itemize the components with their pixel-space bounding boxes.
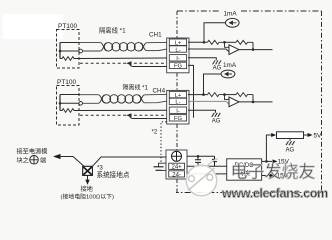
node dot on 24+ wire <box>197 165 199 167</box>
wire L- row CH1 <box>188 49 229 52</box>
arrow 5V <box>308 133 313 137</box>
op-amp CH4 <box>229 97 239 107</box>
node dot L+ / source CH4 <box>202 93 205 96</box>
RTD element bar CH4 <box>59 95 61 111</box>
down arrow to earth <box>87 175 89 181</box>
cable tube CH1 <box>79 42 167 51</box>
svg-text:系统接地点: 系统接地点 <box>97 170 130 179</box>
earth plate 2 <box>156 169 162 171</box>
watermark swoosh <box>207 159 218 167</box>
dotted line FG to earth <box>161 122 167 163</box>
module border bottom <box>176 192 322 194</box>
resistor in sensor CH1 <box>60 57 79 61</box>
wire CH1 middle to cable <box>60 50 79 52</box>
wire L+ row CH1 <box>188 41 208 43</box>
node dot output branch <box>265 160 268 163</box>
resistor R2 CH4 <box>236 93 253 97</box>
wire ground point to FG terminal <box>92 157 166 166</box>
resistor R1 CH4 <box>208 93 225 97</box>
wire to opamp inverting CH1 <box>225 42 230 47</box>
node dot output CH4 <box>252 101 255 104</box>
svg-text:L-: L- <box>175 100 180 106</box>
circled plus in text <box>30 156 39 165</box>
node dot L+ / source CH1 <box>203 41 206 44</box>
svg-text:*3: *3 <box>97 165 103 172</box>
AG ground CH1 <box>213 60 222 64</box>
sensor box PT100 #2 <box>57 86 80 126</box>
wire 24- to DC/DC <box>187 173 227 175</box>
drain wire CH1 to FG <box>130 64 168 67</box>
DC/DC output top wire <box>262 160 271 162</box>
terminal labels CH4 <box>174 93 183 122</box>
wire to R2 CH1 <box>225 41 237 43</box>
svg-text:1mA: 1mA <box>224 11 238 18</box>
resistor box R load <box>277 132 304 139</box>
svg-text:*2: *2 <box>152 129 158 136</box>
watermark bar <box>188 168 215 191</box>
watermark big circle <box>186 165 216 195</box>
svg-text:FG: FG <box>174 64 183 70</box>
resistor in sensor CH4 <box>60 109 79 113</box>
wire CH1 L+ sensor to cable <box>60 42 80 44</box>
current source U2 CH4 <box>221 70 235 78</box>
1mA label CH1 <box>222 8 240 16</box>
svg-text:24-: 24- <box>172 172 181 178</box>
node dot output CH1 <box>252 48 255 51</box>
sensor box PT100 #1 <box>57 30 80 69</box>
svg-text:24+: 24+ <box>172 165 183 171</box>
resistor R2 CH1 <box>236 40 253 44</box>
svg-text:接至电源模: 接至电源模 <box>17 148 48 156</box>
svg-text:FG: FG <box>174 116 183 122</box>
wire resistor to 5V <box>304 134 309 136</box>
module border left segments <box>176 11 178 193</box>
node dot mid CH4 <box>223 93 226 96</box>
node dot FG wire <box>197 155 200 158</box>
cable loops CH4 <box>102 95 140 103</box>
wire CH4 I- <box>79 109 167 111</box>
terminal labels CH1 <box>174 41 183 70</box>
module border right <box>321 11 323 193</box>
open terminal circle CH4 <box>79 102 83 106</box>
arrow -15V <box>270 174 275 178</box>
system ground point box X <box>83 166 93 175</box>
svg-text:接地: 接地 <box>81 185 93 193</box>
shield arrow CH1 <box>126 61 132 65</box>
arrow 15V <box>271 160 272 162</box>
wire source to L+ CH4 <box>204 74 222 95</box>
svg-text:隔离线 *1: 隔离线 *1 <box>99 26 126 35</box>
svg-text:PT100: PT100 <box>57 79 77 86</box>
svg-text:L+: L+ <box>175 41 182 47</box>
opamp output wire CH1 <box>239 49 273 51</box>
node dot CH4 middle wire <box>59 102 62 105</box>
cable loops CH1 <box>104 43 142 51</box>
op-amp CH1 <box>229 45 239 55</box>
current source U1 CH1 <box>226 18 240 27</box>
shield dashed CH1 <box>80 62 166 64</box>
svg-text:隔离线 *1: 隔离线 *1 <box>123 83 149 91</box>
svg-text:PT100: PT100 <box>58 23 78 30</box>
node dot mid CH1 <box>223 41 226 44</box>
wire I- to AG CH4 <box>188 110 216 113</box>
earth bottom wire <box>162 169 167 171</box>
DC/DC converter box <box>227 159 262 180</box>
white patch (erased watermark area) <box>3 14 63 39</box>
module border top <box>177 10 322 12</box>
capacitor C1 <box>195 156 201 166</box>
svg-text:块之: 块之 <box>17 157 29 165</box>
earth capacitor top wire <box>159 163 167 166</box>
svg-text:I-: I- <box>176 56 180 62</box>
svg-text:www.elecfans.com: www.elecfans.com <box>221 187 328 201</box>
resistor R1 CH1 <box>208 40 225 44</box>
wire I- to AG CH1 <box>188 58 216 61</box>
open terminal circle CH1 <box>79 49 83 53</box>
shield arrow CH4 <box>126 113 132 117</box>
wire 24+ to DC/DC <box>187 165 227 167</box>
wire CH4 L+ sensor to cable <box>60 94 80 96</box>
wire CH4 middle to cable <box>60 102 79 104</box>
arrow into resistor <box>271 133 276 137</box>
svg-text:AG: AG <box>212 118 221 124</box>
branch up to resistor <box>266 135 271 161</box>
feedback corner CH4 <box>252 95 254 102</box>
opamp output wire CH4 <box>239 101 273 103</box>
wire CH1 I- <box>79 57 167 60</box>
AG under resistor <box>289 139 291 142</box>
svg-text:AG: AG <box>213 66 222 72</box>
node dot CH1 middle wire <box>59 50 62 53</box>
DC/DC output bottom wire <box>262 175 270 177</box>
wire source to L+ CH1 <box>204 23 226 43</box>
svg-text:CH1: CH1 <box>149 32 162 39</box>
AG ground CH4 <box>212 113 221 117</box>
wire L- row CH4 <box>188 101 229 104</box>
watermark small circle lower <box>189 176 195 182</box>
svg-text:L-: L- <box>175 47 180 53</box>
wire to R2 CH4 <box>225 94 237 96</box>
feedback corner CH1 <box>252 42 254 49</box>
earth plate 1 <box>154 166 164 168</box>
wire to opamp inverting CH4 <box>225 95 230 100</box>
svg-text:电子发烧友: 电子发烧友 <box>231 163 316 182</box>
svg-text:AG: AG <box>286 147 295 153</box>
drain wire CH4 to FG <box>130 116 168 119</box>
FG circle symbol <box>172 151 182 161</box>
FG wire CH1 to CH4 <box>188 65 194 117</box>
svg-text:1mA: 1mA <box>223 62 237 69</box>
watermark small circle upper <box>207 174 213 180</box>
svg-text:5V: 5V <box>314 133 323 140</box>
FG wire right <box>187 155 215 157</box>
svg-text:L+: L+ <box>175 93 182 99</box>
wire L+ row CH4 <box>188 94 208 96</box>
cable tube CH4 <box>79 94 167 103</box>
capacitor C2 <box>212 156 217 166</box>
svg-text:端: 端 <box>40 157 46 165</box>
RTD element bar CH1 <box>59 43 61 59</box>
svg-text:CH4: CH4 <box>153 87 166 94</box>
svg-text:(接地电阻100Ω以下): (接地电阻100Ω以下) <box>61 192 115 200</box>
arrow to power module <box>53 154 61 159</box>
svg-text:I-: I- <box>176 109 180 115</box>
shield dashed CH4 <box>80 114 166 116</box>
